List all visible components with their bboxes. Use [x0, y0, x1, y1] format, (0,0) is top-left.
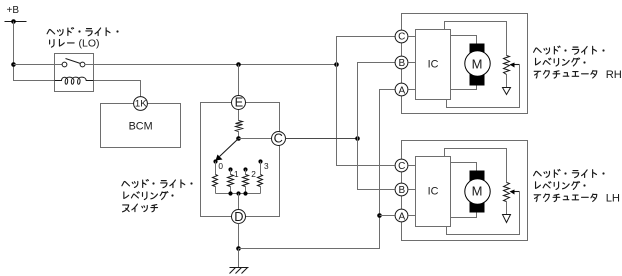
connector pin 1K on BCM: [134, 97, 148, 111]
svg-text:+B: +B: [7, 5, 20, 16]
connector pin B RH: [395, 56, 408, 69]
resistor position 2: [243, 175, 249, 187]
wire pin B to IC RH: [409, 62, 416, 64]
relay contact fixed terminals: [62, 62, 85, 67]
label leveling switch line1: [122, 180, 193, 188]
wire contact 2 drop: [245, 170, 247, 175]
connector pin C switch: [272, 131, 286, 146]
wire +B vertical rail: [14, 22, 55, 81]
wire E pin drop from bus: [238, 65, 240, 96]
svg-text:RH: RH: [606, 69, 622, 81]
svg-text:LH: LH: [606, 193, 620, 205]
junction dot bus center: [236, 191, 240, 195]
wire IC to potentiometer top LH: [445, 149, 507, 183]
+B supply tick bar: [5, 21, 27, 23]
svg-text:3: 3: [264, 161, 269, 171]
IC box LH: [416, 157, 451, 227]
ground arrow triangle RH: [503, 88, 511, 95]
connector pin A LH: [395, 209, 408, 222]
switch contact 1: [228, 167, 232, 171]
wire resistor 0 to bus: [215, 187, 217, 194]
svg-text:C: C: [398, 32, 405, 43]
connector pin A RH: [395, 83, 408, 96]
svg-text:1: 1: [234, 169, 239, 179]
wire wiper to IC bottom LH: [447, 192, 520, 235]
svg-text:D: D: [234, 209, 243, 224]
motor M RH circle: [465, 51, 490, 76]
wire resistor 1 to bus: [230, 187, 232, 194]
wire C-net vertical to actuators: [337, 37, 396, 166]
wire +B to relay contact: [14, 64, 63, 66]
svg-text:A: A: [398, 211, 405, 222]
switch contact 3: [258, 159, 262, 163]
wire relay contact to output: [85, 64, 94, 66]
wire bus to pin D: [238, 194, 240, 210]
label relay: headlight relay (LO) line1: [47, 28, 118, 36]
wire pin A to IC RH: [409, 89, 416, 91]
wire pin A to IC LH: [409, 215, 416, 217]
wire pot bottom LH: [506, 202, 508, 215]
wire resistor to wiper pivot: [238, 132, 240, 139]
connector pin D: [232, 209, 246, 224]
relay K1 headlight relay (LO) box: [55, 54, 94, 92]
actuator RH outer box: [402, 14, 528, 114]
label actuator RH line1: [534, 46, 605, 54]
wire pivot to pin C: [239, 138, 272, 140]
motor M LH circle: [465, 179, 490, 204]
svg-text:B: B: [398, 185, 405, 196]
wire IC to motor top RH: [451, 36, 477, 44]
junction dot wiper pivot: [236, 136, 241, 141]
svg-text:M: M: [472, 184, 483, 199]
label actuator LH line1: [534, 169, 605, 177]
wire resistor bottom bus: [216, 193, 261, 195]
wire pin C to IC RH: [409, 36, 416, 38]
svg-text:M: M: [472, 57, 483, 72]
resistor position 0: [213, 175, 218, 187]
wire pin C to IC LH: [409, 165, 416, 167]
motor M RH body: [470, 44, 485, 86]
junction dot ground node: [236, 246, 241, 251]
resistor position 3: [258, 175, 263, 187]
junction dot +B rail to relay contact: [11, 62, 16, 67]
wire pin D to ground junction: [238, 224, 240, 249]
connector pin C LH: [395, 159, 408, 172]
IC box RH: [416, 30, 451, 100]
svg-text:B: B: [398, 58, 405, 69]
connector pin E: [232, 95, 246, 110]
label actuator RH line3: [534, 70, 597, 78]
connector pin C RH: [395, 30, 408, 43]
wire resistor 3 to bus: [260, 187, 262, 194]
svg-text:2: 2: [251, 169, 256, 179]
potentiometer LH: [504, 183, 510, 202]
wire pin B to IC LH: [409, 189, 416, 191]
junction dot bus 2: [243, 191, 247, 195]
pot wiper arrow RH: [510, 63, 520, 68]
potentiometer RH: [504, 56, 510, 75]
wire A-net to LH pin A: [380, 215, 395, 217]
wire contact 3 drop: [260, 162, 262, 175]
junction dot on +B tick: [11, 19, 16, 24]
actuator LH outer box: [402, 141, 528, 241]
svg-text:1K: 1K: [135, 98, 147, 109]
BCM box: [101, 104, 181, 148]
svg-text:IC: IC: [428, 186, 439, 198]
relay contact blade: [66, 59, 81, 64]
wire motor bottom to IC RH: [451, 85, 477, 90]
svg-text:IC: IC: [428, 59, 439, 71]
wire contact 0 drop: [215, 162, 217, 175]
ground symbol: [230, 268, 249, 274]
junction dot E branch: [236, 62, 241, 67]
wire switch C to B-net: [286, 138, 358, 140]
ground arrow triangle LH: [503, 215, 511, 223]
wire A-net bottom run: [239, 90, 396, 249]
junction dot A-net LH: [377, 213, 382, 218]
wire IC to potentiometer top RH: [445, 22, 507, 56]
label relay line2 riree (LO): [50, 40, 75, 48]
resistor position 1: [228, 175, 234, 187]
wire E to resistor: [238, 110, 240, 121]
wire relay coil to BCM: [94, 81, 141, 97]
junction dot B-net: [355, 136, 360, 141]
label actuator LH line3: [534, 194, 597, 202]
wire contact 1 drop: [230, 170, 232, 175]
wire relay contact output bus y65: [94, 64, 337, 66]
wire B-net vertical to actuators: [358, 63, 396, 190]
wire resistor 2 to bus: [245, 187, 247, 194]
svg-text:BCM: BCM: [129, 120, 153, 132]
svg-text:E: E: [235, 95, 244, 110]
svg-text:C: C: [398, 161, 405, 172]
label actuator RH line2: [536, 58, 586, 66]
wire ground drop: [238, 249, 240, 268]
label actuator LH line2: [536, 181, 586, 189]
svg-text:A: A: [398, 85, 405, 96]
switch wiper arm with arrowhead: [216, 139, 239, 161]
connector pin B LH: [395, 183, 408, 196]
junction dot C-net branch: [334, 62, 339, 67]
switch contact 0: [213, 159, 217, 163]
label leveling switch line3: [123, 204, 158, 212]
junction dot bus 1: [228, 191, 232, 195]
wire IC to motor top LH: [451, 163, 477, 171]
wire pot bottom RH: [506, 75, 508, 88]
svg-text:0: 0: [218, 161, 223, 171]
wire wiper to IC bottom RH: [447, 65, 520, 108]
svg-text:(LO): (LO): [79, 38, 100, 50]
resistor below pin E: [236, 121, 243, 132]
switch contact 2: [243, 167, 247, 171]
leveling switch box: [201, 103, 280, 217]
motor M LH body: [470, 171, 485, 213]
label leveling switch line2: [124, 192, 174, 200]
svg-text:C: C: [274, 131, 283, 146]
wire motor bottom to IC LH: [451, 213, 477, 218]
relay coil L1: [55, 77, 94, 84]
pot wiper arrow LH: [510, 190, 520, 195]
